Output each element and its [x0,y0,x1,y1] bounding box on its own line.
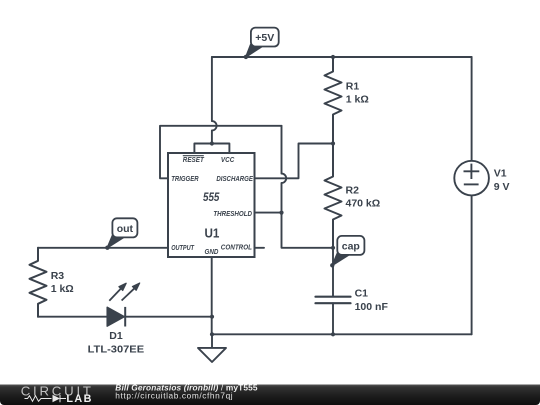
label R3 value [51,270,74,295]
junction node C1/ground rail [331,332,335,336]
CircuitLab logo [21,383,94,405]
svg-text:470 kΩ: 470 kΩ [346,198,381,210]
footer bar [0,385,540,405]
svg-text:U1: U1 [205,226,220,241]
wire RESET/VCC supply bar [194,144,229,154]
net flag cap [330,236,364,268]
wire THRESHOLD pin [255,212,282,214]
label V1 value [494,167,510,193]
svg-text:R3: R3 [51,270,65,282]
svg-text:LAB: LAB [66,393,92,405]
wire DISCHARGE to R1/R2 node [255,144,334,179]
net flag out [105,218,137,250]
wire bottom ground rail [212,333,472,335]
wire C1 bottom to ground rail [332,303,334,334]
svg-text:THRESHOLD: THRESHOLD [213,209,252,218]
junction node R1/R2/discharge [331,141,335,145]
svg-text:OUTPUT: OUTPUT [171,243,195,252]
svg-text:GND: GND [205,247,219,256]
wire CONTROL stub [255,247,265,249]
wire right rail top (to V1) [471,57,473,161]
svg-text:R2: R2 [346,185,360,197]
label R1 value [346,81,369,106]
wire right rail bottom (V1 to ground rail) [471,195,473,334]
wire R3 to D1 anode [38,316,107,318]
svg-text:555: 555 [203,190,220,204]
label D1 value [88,330,144,356]
svg-text:cap: cap [342,241,360,253]
IC U1 555 timer body [168,153,255,257]
svg-text:C1: C1 [355,288,369,300]
svg-text:R1: R1 [346,81,360,93]
svg-text:V1: V1 [494,167,507,179]
svg-text:D1: D1 [109,330,123,342]
voltage source V1 [454,161,489,196]
svg-text:9 V: 9 V [494,181,510,193]
label R2 value [346,185,381,210]
wire D1 cathode to ground node [125,316,213,318]
resistor R3 [30,248,47,317]
wire OUTPUT to R3 [38,247,168,249]
svg-text:VCC: VCC [221,155,235,164]
svg-text:100 nF: 100 nF [355,301,389,313]
capacitor C1 [316,297,351,304]
U1 pin label RESET (with overbar) [183,155,205,164]
ground [198,334,226,362]
junction node threshold [279,211,283,215]
wire TRIGGER to left riser to node [160,126,282,179]
net flag +5V [244,28,279,60]
wire trigger/threshold link vertical (hop over discharge wire) down to cap node row [282,126,334,248]
svg-text:LTL-307EE: LTL-307EE [88,344,144,356]
svg-text:1 kΩ: 1 kΩ [346,94,369,106]
junction node ground rail left [210,332,214,336]
resistor R1 [325,57,342,144]
junction node +5V/R1 [331,55,335,59]
svg-text:TRIGGER: TRIGGER [171,174,199,183]
svg-text:http://circuitlab.com/cfhn7qj: http://circuitlab.com/cfhn7qj [115,391,233,401]
svg-text:out: out [117,223,134,235]
resistor R2 [325,144,342,248]
wire U1 GND pin down [211,257,213,334]
svg-text:CONTROL: CONTROL [221,242,252,251]
junction node supply bar [210,141,214,145]
LED D1 [107,283,140,327]
junction node R2/cap row [331,246,335,250]
svg-text:DISCHARGE: DISCHARGE [216,174,253,183]
svg-text:+5V: +5V [255,32,274,44]
wire from +5V rail down to U1 supply bar (hop over trigger wire) [212,57,217,144]
svg-text:1 kΩ: 1 kΩ [51,283,74,295]
label C1 value [355,288,389,313]
wire +5V top rail [212,56,472,58]
junction node D1/GND wire [210,315,214,319]
wire R2 bottom to C1 [332,248,334,296]
